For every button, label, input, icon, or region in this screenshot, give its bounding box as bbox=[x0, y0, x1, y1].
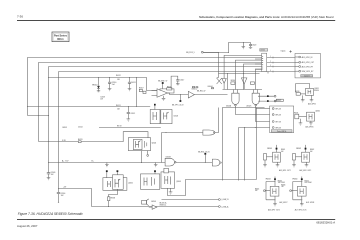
NAND gate U0502D bbox=[212, 159, 220, 166]
svg-text:C0508: C0508 bbox=[100, 97, 105, 99]
capacitor C0512 bbox=[128, 107, 130, 113]
svg-text:August 26, 2007: August 26, 2007 bbox=[17, 224, 38, 228]
wire riser gate1 col to strip bbox=[236, 60, 262, 89]
resistor R0510 bbox=[196, 87, 198, 88]
wire vertical bbox=[161, 133, 163, 163]
node junction bbox=[128, 106, 129, 107]
svg-text:R0534: R0534 bbox=[314, 90, 319, 92]
ground bbox=[309, 121, 313, 125]
wire drop bbox=[136, 78, 138, 107]
NAND gate U0502B bbox=[165, 158, 174, 166]
svg-text:R0516: R0516 bbox=[231, 80, 236, 82]
wire vertical rail C bbox=[48, 67, 50, 173]
bottom rail A+ bbox=[92, 206, 219, 208]
resistor R0509 bbox=[192, 87, 194, 88]
transistor cell Q0506 bbox=[141, 174, 160, 189]
svg-text:7-36: 7-36 bbox=[17, 15, 23, 19]
svg-text:LS0501: LS0501 bbox=[151, 201, 156, 203]
wire strip drop bbox=[267, 72, 269, 74]
svg-text:C0510: C0510 bbox=[112, 82, 117, 84]
wire gate2 out bbox=[256, 106, 273, 122]
wire riser inverter1 to strip bbox=[224, 55, 262, 78]
transistor cell Q0531 bbox=[296, 83, 310, 92]
connector box J0504 bbox=[270, 106, 294, 133]
node junction bbox=[58, 188, 59, 189]
svg-text:C0511: C0511 bbox=[131, 82, 136, 84]
transistor cell U0503 bbox=[154, 106, 156, 110]
MOSFET cell VR0562 (row1 col2) bbox=[292, 145, 314, 167]
svg-text:R0512: R0512 bbox=[116, 75, 121, 77]
footer rule bbox=[17, 219, 335, 221]
pin 3 bbox=[272, 121, 274, 123]
svg-text:R0538: R0538 bbox=[111, 198, 116, 200]
svg-text:BB_OPT_CS_5V: BB_OPT_CS_5V bbox=[172, 104, 184, 106]
op-amp U0501-2 bbox=[188, 91, 194, 98]
wire bus 5V top bbox=[49, 78, 158, 91]
svg-text:U0501-2: U0501-2 bbox=[192, 89, 198, 91]
svg-text:U0503: U0503 bbox=[174, 116, 179, 118]
svg-text:10K: 10K bbox=[281, 151, 284, 153]
test point pin bbox=[258, 95, 274, 97]
wire jumper left bbox=[28, 115, 49, 117]
svg-text:UNSW_B+: UNSW_B+ bbox=[160, 205, 167, 207]
inverter U0504A bbox=[222, 79, 226, 84]
svg-text:R0566: R0566 bbox=[281, 184, 285, 186]
svg-text:Option: Option bbox=[281, 50, 286, 53]
svg-text:R0561: R0561 bbox=[281, 149, 285, 151]
capacitor C0516 bbox=[57, 191, 60, 193]
buzzer triangle bbox=[152, 205, 157, 209]
wire verticals to gates bbox=[228, 72, 244, 90]
svg-text:R0562: R0562 bbox=[310, 149, 314, 151]
wire corner to bottom rail bbox=[59, 189, 92, 207]
wire drop to A+ rail bbox=[141, 151, 143, 163]
resistor R0508 bbox=[143, 91, 146, 93]
svg-text:SSW_GPIO_IFY: SSW_GPIO_IFY bbox=[302, 71, 315, 73]
wire bus line 1 bbox=[28, 58, 296, 116]
svg-text:VR0564: VR0564 bbox=[292, 179, 297, 181]
wire cell out riser bbox=[168, 180, 257, 196]
connector strip J0502 bbox=[262, 53, 267, 71]
svg-text:R0531: R0531 bbox=[78, 139, 83, 141]
wire crossover X bbox=[217, 78, 222, 84]
ground bbox=[162, 96, 166, 101]
wire net RX rail bbox=[28, 106, 151, 108]
wire gate U feed bbox=[162, 132, 203, 134]
svg-text:Q0531: Q0531 bbox=[314, 88, 319, 90]
svg-text:GP8_IN: GP8_IN bbox=[275, 127, 282, 129]
header rule bbox=[17, 20, 335, 22]
svg-text:800-1: 800-1 bbox=[57, 38, 64, 41]
svg-text:6816532H01-A: 6816532H01-A bbox=[316, 221, 335, 225]
svg-text:GP6_IN: GP6_IN bbox=[275, 114, 282, 116]
svg-text:10K: 10K bbox=[255, 190, 258, 192]
svg-text:C0514: C0514 bbox=[78, 127, 83, 129]
svg-text:U0504-1: U0504-1 bbox=[208, 86, 214, 88]
svg-text:Q0509: Q0509 bbox=[176, 181, 181, 183]
svg-text:Schematics, Component Location: Schematics, Component Location Diagrams,… bbox=[199, 15, 334, 19]
capacitor C0520 bbox=[244, 43, 251, 45]
svg-text:VR0562: VR0562 bbox=[296, 148, 301, 150]
resistor R0514 bbox=[211, 88, 213, 89]
wire vertical drop bbox=[218, 53, 220, 78]
capacitor C0509 bbox=[47, 172, 50, 174]
wire verticals through bbox=[239, 128, 245, 181]
svg-text:GP5_IN: GP5_IN bbox=[275, 108, 282, 110]
svg-text:J0502: J0502 bbox=[260, 50, 265, 52]
resistor R0522 bbox=[276, 99, 283, 101]
resistor R0516 bbox=[231, 82, 235, 84]
wire A+ rail bbox=[49, 162, 166, 164]
pin 4 bbox=[272, 127, 274, 129]
NAND gate U0502A bbox=[232, 93, 239, 104]
svg-text:VR0563: VR0563 bbox=[266, 179, 271, 181]
svg-text:Q0504: Q0504 bbox=[152, 143, 157, 145]
MOSFET cell VR0561 (row1 col1) bbox=[263, 145, 285, 167]
svg-text:R0536: R0536 bbox=[294, 112, 298, 114]
resistor R0538 bbox=[109, 189, 118, 197]
wire bus line 4 bbox=[59, 71, 296, 73]
test point bbox=[258, 100, 276, 102]
svg-text:C0512: C0512 bbox=[130, 113, 135, 115]
svg-text:VR0502: VR0502 bbox=[92, 84, 98, 86]
svg-text:Figure 7-36. HUD4022A 5E/8E00: Figure 7-36. HUD4022A 5E/8E00 Schematic bbox=[18, 212, 83, 216]
ground bbox=[169, 188, 173, 194]
wire 5V feed bbox=[162, 199, 219, 201]
node pin MB_5V bbox=[219, 199, 221, 201]
group outline box bbox=[223, 108, 265, 181]
inverter U0504B bbox=[241, 78, 247, 84]
resistor R0506 feedback bbox=[160, 89, 167, 91]
svg-text:B+: B+ bbox=[92, 161, 94, 163]
test point BB_OPT bbox=[180, 95, 182, 101]
transistor cell Q0532 bbox=[295, 114, 299, 119]
svg-text:Q0532: Q0532 bbox=[315, 111, 320, 113]
NAND gate U0502E bbox=[203, 130, 215, 135]
svg-text:U0502C: U0502C bbox=[246, 105, 251, 107]
wire gate input rail bbox=[223, 89, 263, 91]
svg-text:10K C0564: 10K C0564 bbox=[305, 182, 312, 184]
svg-text:R0563: R0563 bbox=[278, 180, 282, 182]
svg-text:R0511: R0511 bbox=[116, 105, 121, 107]
resistor R0507 bbox=[139, 89, 142, 91]
svg-text:C0517: C0517 bbox=[180, 80, 185, 82]
svg-text:10K: 10K bbox=[281, 186, 284, 188]
svg-text:R0565: R0565 bbox=[255, 188, 259, 190]
node junction bbox=[27, 106, 28, 107]
resistor R0531 bbox=[78, 141, 81, 143]
node junction bbox=[48, 141, 49, 142]
pin 2 bbox=[295, 61, 299, 63]
ground bbox=[242, 47, 246, 49]
svg-text:10K C0563: 10K C0563 bbox=[278, 182, 285, 184]
wire vertical rail D bbox=[58, 72, 60, 193]
wire riser gate2 col to strip bbox=[256, 69, 262, 89]
svg-text:BB_SW_B+: BB_SW_B+ bbox=[160, 203, 168, 205]
ground bbox=[108, 89, 112, 91]
wire gate1 out bbox=[236, 106, 273, 115]
svg-text:R0533: R0533 bbox=[295, 91, 299, 93]
connector header J0502 bbox=[260, 49, 268, 52]
node junction bbox=[38, 115, 39, 116]
svg-text:R0513: R0513 bbox=[63, 127, 68, 129]
svg-text:GP7_IN: GP7_IN bbox=[275, 121, 282, 123]
wire RX 5V bbox=[99, 127, 161, 129]
pin 1 bbox=[272, 108, 274, 110]
wire pin4 feed bbox=[239, 127, 273, 129]
ground bbox=[47, 178, 51, 180]
wire pin1 feed bbox=[257, 108, 273, 110]
ground bbox=[127, 119, 131, 121]
wire bus line 2 bbox=[39, 63, 296, 142]
wire opamp link bbox=[168, 93, 189, 95]
wire 9.3V step to cell bbox=[123, 132, 148, 142]
NAND gate U0502C bbox=[252, 93, 259, 104]
svg-text:10K: 10K bbox=[310, 151, 313, 153]
connector footer bar bbox=[271, 130, 292, 132]
svg-text:BB_RX1_5V: BB_RX1_5V bbox=[197, 91, 205, 93]
test point BB_MOD bbox=[162, 82, 164, 84]
ground bbox=[128, 89, 132, 91]
MOSFET cell VR0564 (row2 col2) bbox=[281, 177, 314, 212]
svg-text:R0564: R0564 bbox=[305, 180, 309, 182]
transistor cell Q0509 bbox=[161, 172, 175, 188]
wire opamp out bbox=[194, 94, 227, 96]
wire net 9.3V rail bbox=[39, 141, 124, 143]
node junction bbox=[48, 115, 49, 116]
resistor R0517 bbox=[250, 82, 254, 84]
svg-text:Conn 8: Conn 8 bbox=[304, 76, 310, 78]
ground cap branch bbox=[105, 163, 109, 167]
transistor cell Q0504 bbox=[128, 138, 150, 151]
pin 3 bbox=[295, 66, 299, 68]
ground bbox=[299, 119, 303, 125]
svg-text:C0520: C0520 bbox=[252, 44, 257, 46]
ground bbox=[301, 95, 305, 102]
wire top gnd branch bbox=[229, 43, 244, 53]
svg-text:R0506: R0506 bbox=[167, 86, 172, 88]
capacitor C0510 bbox=[109, 77, 110, 78]
svg-text:(+) MB_5V: (+) MB_5V bbox=[221, 199, 228, 201]
svg-text:BB_MOD_5V: BB_MOD_5V bbox=[158, 80, 167, 82]
wire gate feed bus bbox=[219, 73, 260, 75]
svg-text:U0502B: U0502B bbox=[166, 157, 171, 159]
connector box J0503 bbox=[295, 54, 321, 78]
op-amp U0501-1 bbox=[157, 89, 168, 97]
svg-text:BB_2515_5: BB_2515_5 bbox=[186, 52, 194, 54]
transistor cell Q0505 bbox=[103, 178, 127, 191]
svg-text:VR0561: VR0561 bbox=[267, 148, 272, 150]
pin ticks bbox=[272, 57, 274, 73]
svg-text:C0516: C0516 bbox=[61, 193, 66, 195]
svg-text:R0507: R0507 bbox=[139, 88, 144, 90]
svg-text:C0509: C0509 bbox=[51, 172, 56, 174]
svg-text:A+ 7.5V: A+ 7.5V bbox=[62, 160, 69, 163]
ground bbox=[310, 95, 314, 102]
capacitor C0517 branch bbox=[171, 76, 178, 89]
speaker SH0501 bbox=[142, 201, 147, 205]
wire bus line 3 bbox=[49, 66, 296, 68]
pin 1 bbox=[295, 56, 299, 58]
svg-text:.1uF: .1uF bbox=[112, 84, 115, 86]
MOSFET cell VR0563 (row2 col1) bbox=[255, 177, 288, 212]
pin 2 bbox=[272, 114, 274, 116]
svg-text:Q0505: Q0505 bbox=[128, 182, 133, 184]
diode VR0502 bbox=[98, 78, 100, 86]
capacitor C0511 bbox=[129, 77, 130, 78]
node junction bbox=[48, 77, 49, 78]
pin 4 bbox=[295, 70, 299, 72]
part series reference box bbox=[52, 32, 69, 42]
svg-text:R0522: R0522 bbox=[277, 100, 282, 102]
svg-text:BB_RX3_CS_5V: BB_RX3_CS_5V bbox=[198, 151, 209, 153]
connector footer bar bbox=[301, 75, 313, 77]
node pin MB_A+ bbox=[219, 206, 221, 208]
svg-text:10V: 10V bbox=[100, 98, 103, 100]
wire riser gate2 input col to strip bbox=[244, 64, 262, 72]
ground cap branch bbox=[154, 163, 158, 167]
